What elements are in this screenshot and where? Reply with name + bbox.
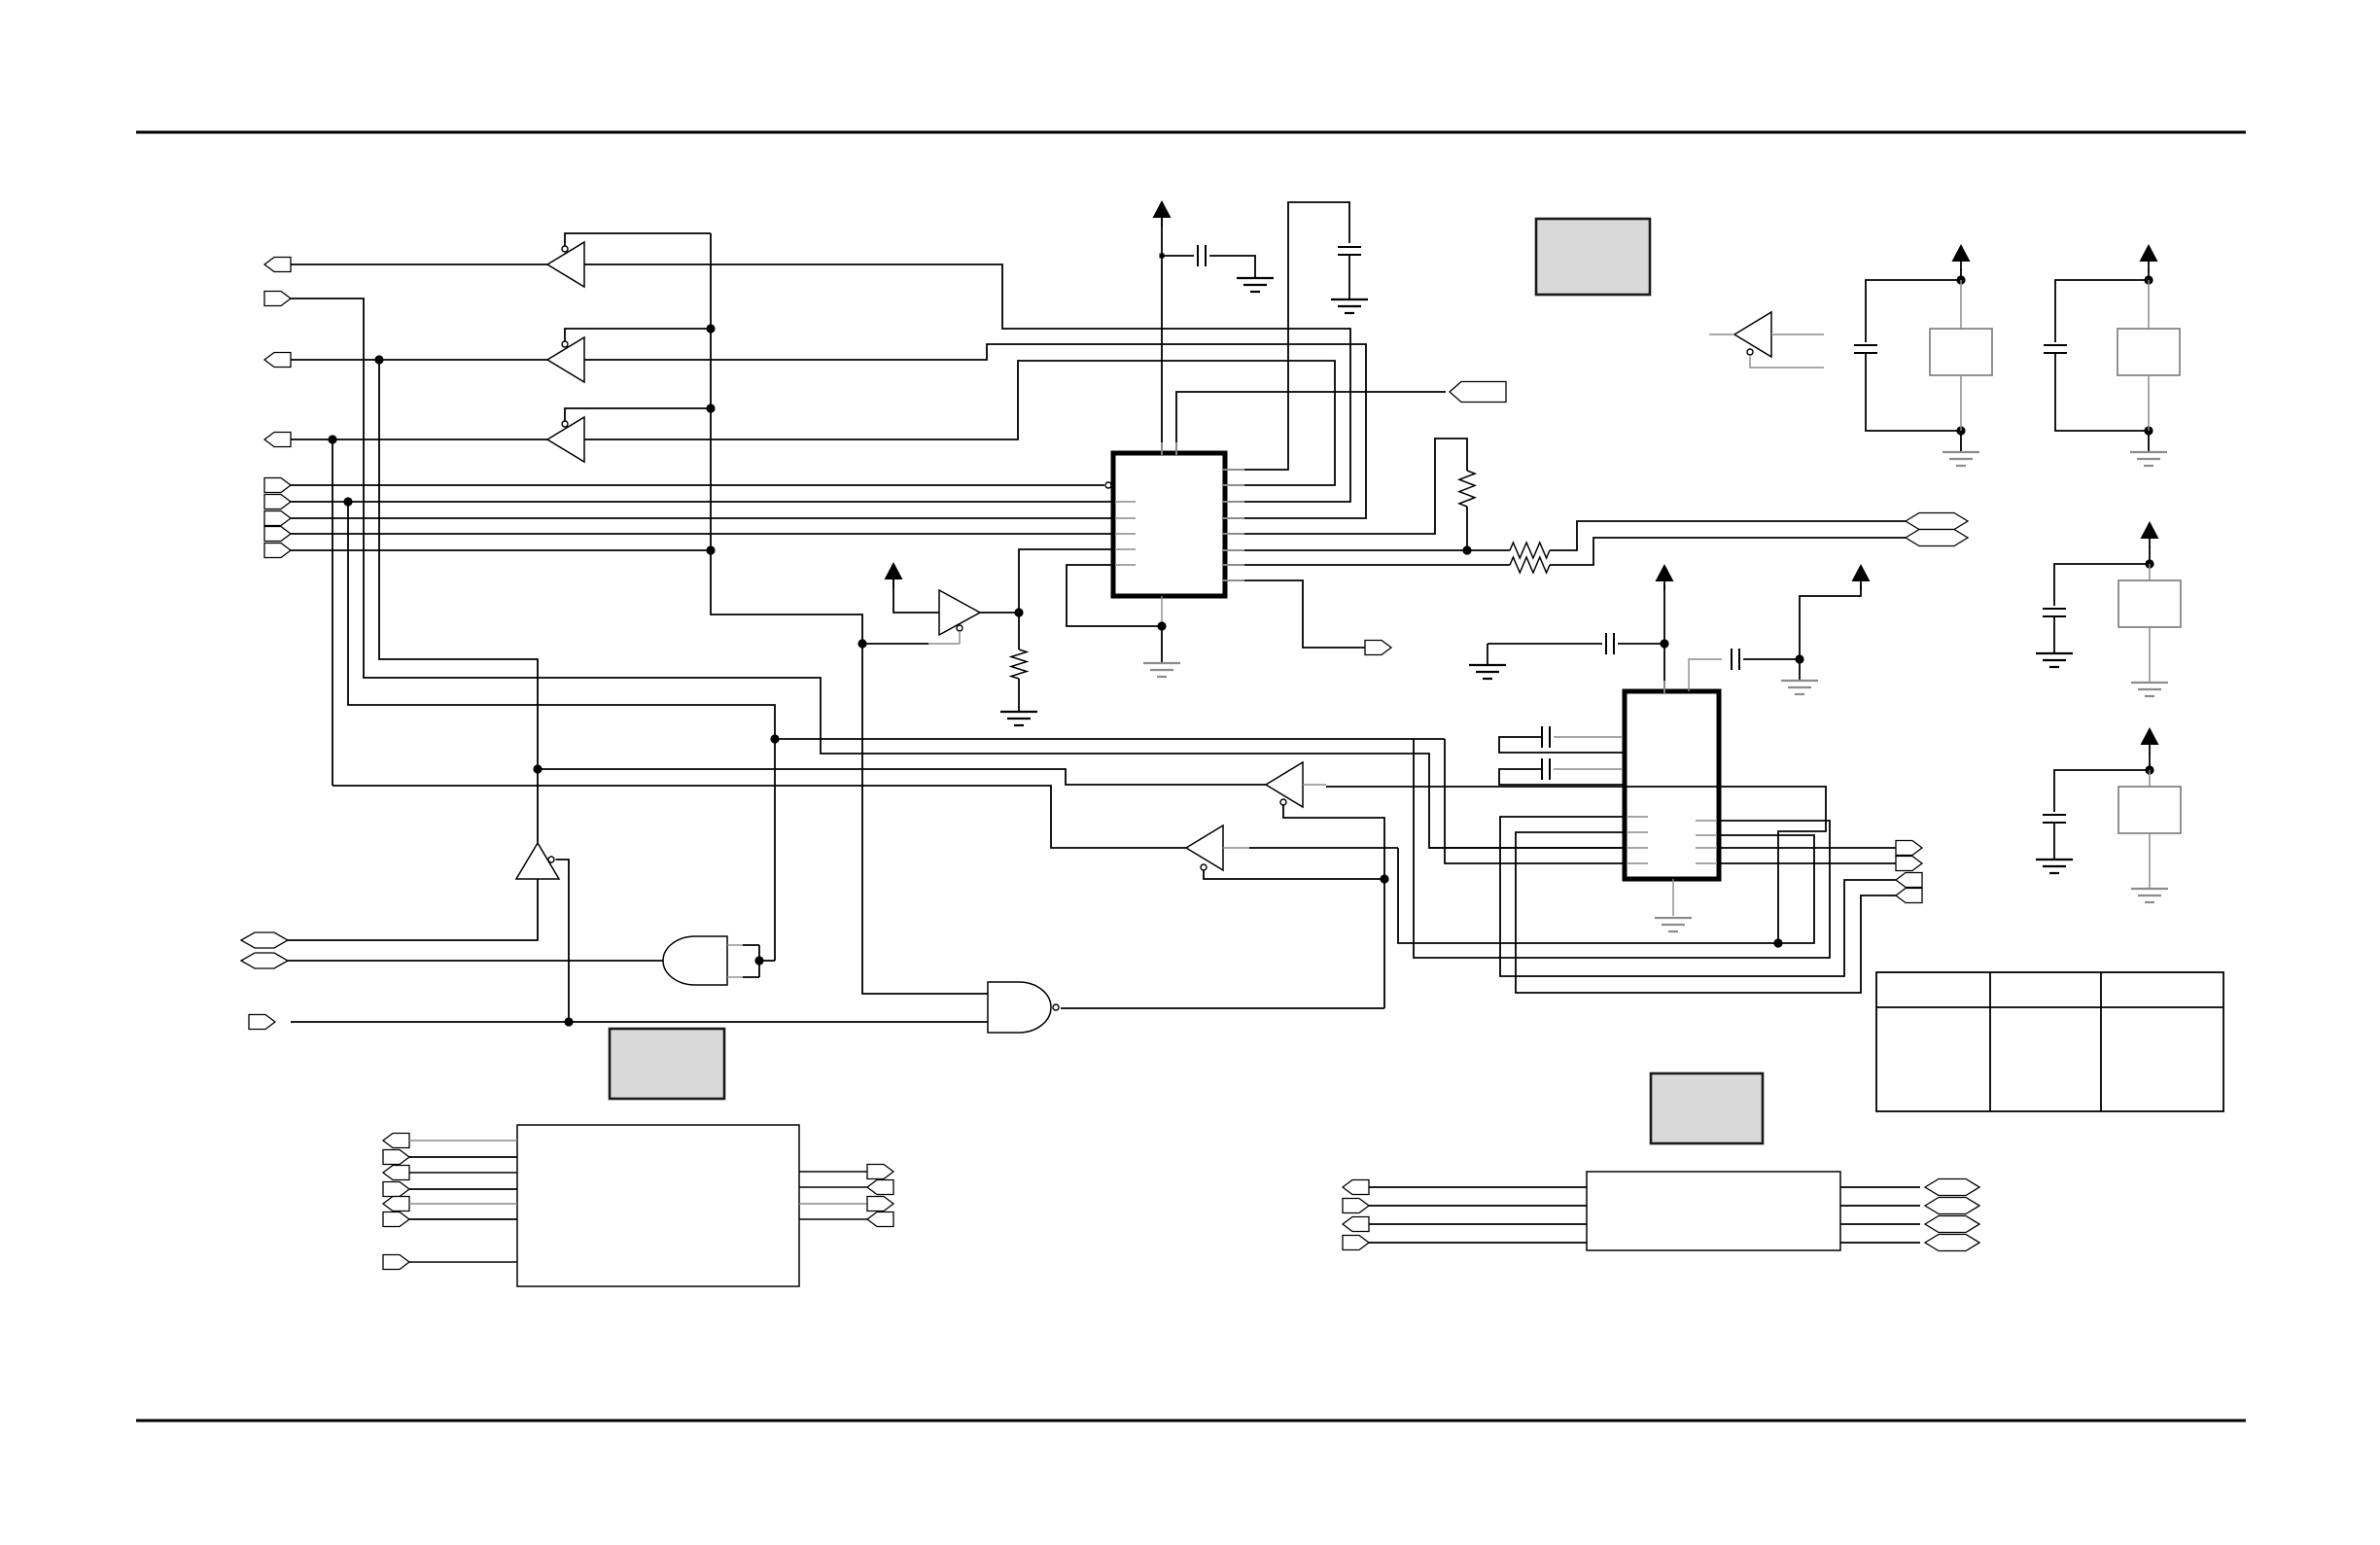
buffer U8 up (516, 843, 559, 879)
capacitor (1854, 345, 1877, 353)
wire U10 output to enable chain (1061, 1007, 1384, 1009)
input connector P5 (264, 478, 291, 493)
output connector P15 (1896, 857, 1922, 871)
power VCC arrow (1952, 244, 1971, 262)
AND gate U9 mirrored (663, 936, 727, 985)
component block X2 (1587, 1172, 1840, 1250)
wire VCC to node (2148, 269, 2150, 280)
node IC1 bottom pin (1157, 621, 1166, 630)
wire crystal to ground (2149, 833, 2151, 889)
node bottom (2144, 426, 2152, 435)
ground at cap (2036, 860, 2073, 873)
bus connector X2 right pin 1 (1840, 1186, 1920, 1188)
connector X1 left pin 3 (383, 1166, 409, 1180)
inverter U7 (1186, 825, 1223, 870)
wire IC1 pin10 through R4 (1225, 564, 1510, 566)
node U2 output (1014, 608, 1023, 616)
output connector P13 (1365, 641, 1391, 655)
ground at C1 (1237, 278, 1274, 292)
input connector P20 (249, 1015, 275, 1030)
wire C1 to ground (1209, 256, 1255, 278)
bubble U6 enable (1280, 799, 1286, 805)
node EN net junction 1 (706, 324, 715, 333)
wire U4 enable stub (1750, 357, 1824, 369)
IC U5 transceiver (1625, 691, 1719, 879)
connector X1 right pin 2 (799, 1186, 867, 1188)
node bottom (1956, 426, 1965, 435)
crystal box (2118, 787, 2181, 833)
wire bottom pin to ground (1161, 626, 1163, 663)
wire VCC to node (1960, 269, 1962, 280)
wire bus970 to U6 input riser (1326, 787, 1826, 943)
wire IC2 pin to P16 net (1500, 817, 1896, 976)
connector X1 right pin 3 (799, 1203, 867, 1205)
connector X1 left pin 2 (383, 1150, 409, 1165)
wire R3 to bus connector (1550, 521, 1906, 550)
IC U3 main controller (1113, 453, 1225, 596)
capacitor C1 (1198, 245, 1206, 266)
connector X1 left pin 7 (383, 1255, 409, 1270)
ground under crystal (2131, 683, 2168, 696)
wire cap to ground (2053, 823, 2055, 860)
wire IC2 right pin to bus985 (1414, 739, 1830, 958)
wire P20 to NAND input (291, 1021, 988, 1023)
wire P1 to U1A output (291, 263, 547, 265)
wire into crystal (1960, 280, 1962, 329)
bubble U10 output (1053, 1004, 1059, 1010)
wire tie to vertical 797 (759, 960, 775, 962)
crystal box (1930, 329, 1992, 375)
wire C3 net (1487, 643, 1602, 645)
wire VCC to node (2149, 753, 2151, 770)
wire VCC to U2 input (893, 579, 939, 613)
node EN net junction 2 (706, 404, 715, 412)
ground at C2 (1331, 299, 1368, 313)
wire U2 enable stub (959, 631, 961, 644)
input connector P7 (264, 511, 291, 526)
bubble U8 enable (548, 857, 554, 862)
resistor R3 (1510, 543, 1550, 558)
wire R2 to node (1466, 507, 1468, 550)
input connector P9 (264, 544, 291, 558)
wire cap branch bottom (1866, 353, 1961, 431)
wire U1C input jog to IC1 pin (584, 361, 1335, 485)
power VCC arrow (2141, 521, 2159, 539)
inverter U1A (547, 242, 584, 287)
pin stubs gray IC2 right (1696, 820, 1717, 822)
node top (2145, 559, 2153, 568)
top border rule (136, 131, 2246, 134)
ground under IC1 (1143, 663, 1180, 677)
connector X1 left pin 4 (383, 1182, 409, 1197)
pin stub gray IC2 top (1663, 681, 1665, 693)
wire IC1 top VCC pin (1161, 218, 1163, 453)
wire U7 enable to node (1204, 870, 1384, 879)
wire cap branch bottom (2055, 353, 2149, 431)
wire U1B enable stub (565, 329, 711, 341)
wire P8 to IC1 pin 4 (291, 533, 1113, 535)
wire IC1 bottom pin loop (1161, 596, 1163, 626)
wire IC1 pin9 to connector P13 (1225, 580, 1365, 648)
node inverter enable (1380, 874, 1388, 883)
wire U4 output stub (1709, 334, 1734, 335)
connector X1 left pin 1 (383, 1134, 409, 1148)
ground at R1 (1000, 712, 1037, 725)
wire EN chain to NAND input 1 (862, 644, 988, 994)
node EN net junction 3 (706, 545, 715, 554)
wire IC2 bottom to ground (1672, 879, 1674, 916)
wire U2 output to node (980, 612, 1019, 614)
pin stubs gray IC1 right (1223, 469, 1244, 471)
wire U1A input jog to IC1 pin (584, 264, 1350, 502)
wire IC1 pin11 through R3 (1225, 549, 1510, 551)
wire IC2 pin to P17 net (1516, 832, 1896, 993)
node U9 tie (754, 956, 763, 965)
ground under crystal (2131, 889, 2168, 902)
bubble U4 enable (1747, 349, 1753, 355)
wire VCC to node (2149, 546, 2151, 564)
bus connector P19 (241, 953, 288, 968)
wire crystal to ground (2149, 627, 2151, 683)
node top (1956, 275, 1965, 284)
output connector P1 (264, 258, 291, 272)
node on P3 net (374, 355, 383, 364)
wire U4 input stub (1771, 334, 1824, 335)
wire R1 to ground (1018, 679, 1020, 712)
wire EN vertical (710, 233, 712, 550)
wire enable stub to U2 bubble (862, 643, 928, 645)
wire IC2 pin 888 from 760 net (1445, 739, 1625, 863)
wire P3 to U1B output (291, 359, 547, 361)
wire U1A enable stub to EN net (565, 233, 711, 246)
capacitor C3 (1606, 633, 1614, 654)
wire IC1 pin12 to R2 top hat (1225, 439, 1467, 534)
wire cap to ground (2053, 616, 2055, 653)
wire U7 output to shared net (332, 786, 1186, 848)
wire P7 to IC1 pin 3 (291, 517, 1113, 519)
input connector P16 (1896, 873, 1922, 888)
capacitor C6 loop (1554, 768, 1622, 770)
wire P2 down-right net (291, 298, 1622, 848)
connector X2 left pin 1 (1343, 1180, 1369, 1195)
wire U1C enable stub (565, 408, 711, 421)
wire P4 to U1C output (291, 439, 547, 440)
wire IC2 right pin to connector P14 (1719, 847, 1896, 849)
wire VCC to C1 (1162, 255, 1194, 257)
wire C4 node to ground (1799, 659, 1801, 681)
wire VCC2 arrow net (1800, 583, 1861, 659)
wire C4 to node (1743, 658, 1800, 660)
wire IC2 pin 872 from P2 net (1429, 847, 1625, 849)
wire cap branch top (2055, 280, 2149, 342)
wire node down to R1 (1018, 613, 1020, 650)
bus connector P18 (241, 932, 288, 948)
output connector P3 (264, 353, 291, 368)
wire IC1 pin16 to C2 net (1225, 202, 1349, 470)
wire C3 left to ground (1487, 644, 1488, 665)
connector X1 right pin 1 (799, 1171, 867, 1173)
NAND gate U10 (988, 982, 1051, 1033)
crystal box (2117, 329, 2180, 375)
capacitor (2043, 609, 2066, 616)
bus connector X2 right pin 3 (1840, 1223, 1920, 1225)
ground under IC2 (1655, 918, 1692, 931)
wire crystal to node (2148, 375, 2150, 431)
inverter U1C (547, 417, 584, 462)
wire C2 to ground (1348, 255, 1350, 299)
node top (2145, 765, 2153, 774)
wire into crystal (2148, 280, 2150, 329)
node bus970 tee (1773, 938, 1782, 947)
label box note1 (1536, 219, 1650, 295)
bubble U1C enable (562, 421, 568, 427)
node top (2144, 275, 2152, 284)
connector X2 left pin 3 (1343, 1217, 1369, 1232)
wire node into crystal (2149, 564, 2151, 580)
output connector P14 (1896, 841, 1922, 856)
power VCC arrow (2141, 727, 2159, 745)
wire EN to buffer enable (711, 550, 862, 644)
wire P4 vertical to shared net (332, 439, 333, 786)
bubble U1A enable (562, 246, 568, 252)
input connector P8 (264, 527, 291, 542)
capacitor C2 (1338, 247, 1361, 255)
connector X1 left pin 5 (383, 1197, 409, 1211)
connector X2 left pin 2 (1343, 1199, 1369, 1213)
wire P9 to EN vertical (291, 549, 711, 551)
ground at C4 (1781, 681, 1818, 694)
node C4 right (1795, 654, 1803, 663)
wire cap branch (2054, 564, 2150, 606)
wire U8 enable stub down (556, 860, 570, 1022)
pin stubs gray IC1 left (1115, 501, 1136, 503)
input connector P6 (264, 495, 291, 509)
wire VCC to IC2 top (1663, 583, 1665, 691)
inverter U1B (547, 337, 584, 382)
wire C3 to node (1618, 643, 1664, 645)
wire U7 input stub (1223, 847, 1249, 849)
wire node into crystal (2149, 770, 2151, 787)
power VCC arrow at buffer U2 (885, 562, 903, 579)
label box note3 (1651, 1073, 1763, 1143)
wire P6 to IC1 pin 2 (291, 501, 1113, 503)
wire U6 output to shared net (538, 769, 1266, 785)
node VCC cap tap (1660, 639, 1668, 648)
resistor R4 (1510, 557, 1550, 573)
power VCC arrow right (1852, 564, 1871, 581)
input connector P2 (264, 292, 291, 306)
bus connector X2 right pin 2 (1840, 1205, 1920, 1207)
wire node to ground (2148, 431, 2150, 452)
component block X1 (517, 1125, 799, 1286)
bubble U1B enable (562, 341, 568, 347)
wire node to ground (1960, 431, 1962, 452)
wire IC1 top pin2 to connector (1176, 392, 1446, 453)
wire U6 input stub (1303, 784, 1326, 786)
bubble U7 enable (1201, 864, 1207, 870)
capacitor (2044, 345, 2067, 353)
node buffer enable tee (857, 639, 866, 648)
node U8 enable tee (564, 1017, 573, 1026)
connector X2 left pin 4 (1343, 1236, 1369, 1250)
pin stubs gray IC2 left (1627, 816, 1648, 818)
wire IC2 top pin2 to C4 (1689, 659, 1722, 691)
ground at cap (2036, 653, 2073, 667)
bubble IC1 pin1 active-low (1105, 482, 1111, 488)
capacitor (2043, 815, 2066, 823)
wire P5 to IC1 pin 1 (291, 484, 1104, 486)
wire enable net down to NAND output (1383, 879, 1385, 1008)
bus connector P12 (1906, 530, 1968, 546)
crystal box (2118, 580, 2181, 627)
wire 760 line right (775, 738, 1445, 740)
bus connector P11 (1906, 513, 1968, 530)
wire R4 to bus connector (1550, 538, 1906, 565)
wire U1B input jog to IC1 pin (584, 344, 1366, 518)
wire P19 to AND output (287, 960, 663, 962)
ground (2130, 452, 2167, 466)
node on P6 line (343, 497, 352, 506)
output connector P10 wide (1450, 382, 1506, 403)
node 760 tee (770, 734, 779, 743)
buffer U2 (939, 590, 980, 635)
wire node up to IC1 pin 5 (1019, 549, 1113, 613)
wire crystal to node (1960, 375, 1962, 431)
bus connector X2 right pin 4 (1840, 1242, 1920, 1244)
node VCC decoupling tap (1160, 254, 1165, 259)
power VCC arrow IC2 (1656, 564, 1674, 581)
input connector P17 (1896, 889, 1922, 903)
pin stubs gray IC1 top bottom (1161, 442, 1163, 455)
wire vertical 797 for AND (348, 502, 775, 961)
wire cap branch (2054, 770, 2150, 812)
wire U7 input from bus970 (1249, 847, 1398, 849)
wire cap branch top (1866, 280, 1961, 342)
capacitor C4 (1732, 649, 1739, 670)
node R2 bottom (1462, 545, 1471, 554)
ground (1942, 452, 1979, 466)
tri-state buffer U4 (1734, 312, 1771, 357)
wire U9 input stubs tied (727, 944, 743, 946)
wire IC2 right pin to bus970 (1398, 835, 1814, 943)
wire U6 enable to node (1283, 805, 1384, 879)
power VCC arrow IC1 (1153, 200, 1172, 218)
ground at C3 (1469, 665, 1506, 679)
output connector P4 (264, 433, 291, 447)
wire U8 input from bus connector (287, 879, 538, 940)
connector X1 left pin 6 (383, 1212, 409, 1227)
table revision block (1876, 972, 2223, 1111)
node on P4 net (328, 435, 336, 443)
resistor R2 (1459, 471, 1475, 507)
wire IC2 right pin to connector P15 (1719, 862, 1896, 864)
wire bottom pin to pin6 loop (1067, 565, 1162, 626)
label box note2 (610, 1029, 724, 1099)
node buffer output tee (533, 764, 542, 773)
capacitor C5 loop (1554, 736, 1622, 738)
inverter U6 (1266, 762, 1303, 807)
resistor R1 (1011, 650, 1027, 679)
bottom border rule (136, 1420, 2246, 1422)
node P3-net to buffer chain (379, 360, 538, 843)
connector X1 right pin 4 (799, 1218, 867, 1220)
power VCC arrow (2140, 244, 2158, 262)
bubble U2 enable (957, 625, 962, 631)
